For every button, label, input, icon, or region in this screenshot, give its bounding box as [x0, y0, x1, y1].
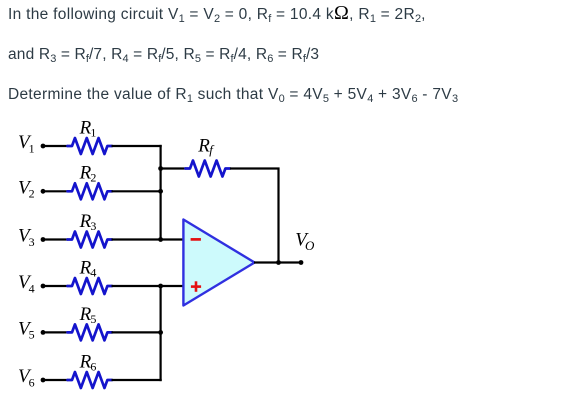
resistor R6	[68, 372, 113, 388]
svg-text:6: 6	[90, 359, 96, 373]
wire R2 to inverting bus	[112, 190, 161, 192]
resistor Rf	[186, 161, 231, 177]
wire V6 to R6	[44, 379, 68, 381]
label V4	[18, 272, 35, 295]
label Rf	[197, 136, 215, 158]
resistor R3	[68, 232, 113, 248]
label V1	[18, 132, 35, 155]
resistor R5	[68, 324, 113, 340]
wire inverting bus to Rf	[161, 167, 186, 169]
wire R4 to non-inverting bus	[112, 285, 161, 287]
label R4	[79, 257, 97, 279]
svg-text:2: 2	[29, 187, 35, 201]
label V2	[18, 178, 35, 201]
svg-text:2: 2	[90, 171, 96, 185]
wire non-inverting bus (V4..V6)	[160, 286, 162, 381]
label V6	[18, 366, 35, 389]
label R1	[79, 117, 97, 139]
wire op-amp output	[254, 261, 301, 263]
node V1 terminal dot	[41, 144, 46, 149]
wire Rf to output (feedback)	[230, 169, 279, 263]
label V3	[18, 226, 35, 249]
wire V2 to R2	[44, 190, 68, 192]
label R3	[79, 211, 97, 233]
node junction dot V4 / non-inverting input tee	[158, 284, 163, 289]
node junction dot feedback to output	[276, 260, 281, 265]
wire R5 to non-inverting bus	[112, 331, 161, 333]
label R2	[79, 163, 97, 185]
node V3 terminal dot	[41, 237, 46, 242]
question text line 3	[8, 85, 458, 105]
node V6 terminal dot	[41, 378, 46, 383]
wire inverting input to op-amp	[161, 238, 184, 240]
label R6	[79, 351, 97, 373]
resistor R2	[68, 183, 113, 199]
wire R3 to inverting bus	[112, 238, 161, 240]
node V2 terminal dot	[41, 189, 46, 194]
wire V1 to R1	[44, 145, 68, 147]
op-amp non-inverting (+) marker	[191, 281, 201, 292]
svg-text:f: f	[209, 142, 215, 157]
svg-text:1: 1	[29, 141, 35, 155]
svg-text:6: 6	[29, 375, 35, 389]
wire R1 to inverting bus	[112, 145, 162, 147]
node junction dot Rf tap on inverting bus	[158, 166, 163, 171]
label Vo	[295, 230, 315, 253]
resistor R4	[68, 278, 113, 294]
wire V3 to R3	[44, 238, 68, 240]
svg-text:O: O	[305, 238, 315, 253]
svg-text:4: 4	[29, 281, 35, 295]
wire inverting bus (V1..V3 summing node)	[160, 145, 162, 240]
svg-text:5: 5	[29, 328, 35, 342]
label V5	[18, 319, 35, 342]
wire V4 to R4	[44, 285, 68, 287]
svg-text:3: 3	[29, 235, 35, 249]
svg-text:4: 4	[90, 265, 96, 279]
op-amp U1	[183, 220, 254, 306]
svg-text:5: 5	[90, 312, 96, 326]
question text line 1	[8, 5, 426, 25]
wire V5 to R5	[44, 331, 68, 333]
node junction dot V5 on non-inverting bus	[158, 330, 163, 335]
node V5 terminal dot	[41, 330, 46, 335]
node junction dot V3 / inverting input tee	[158, 237, 163, 242]
node V4 terminal dot	[41, 284, 46, 289]
op-amp inverting (-) marker	[191, 238, 201, 241]
question text line 2	[8, 45, 319, 65]
resistor R1	[68, 138, 113, 154]
node junction dot V2 on inverting bus	[158, 189, 163, 194]
svg-text:3: 3	[90, 219, 96, 233]
wire R6 to non-inverting bus corner	[112, 379, 162, 381]
wire non-inverting input to op-amp	[161, 285, 184, 287]
node Vo terminal dot	[299, 260, 304, 265]
label R5	[79, 304, 97, 326]
svg-text:1: 1	[90, 125, 96, 139]
